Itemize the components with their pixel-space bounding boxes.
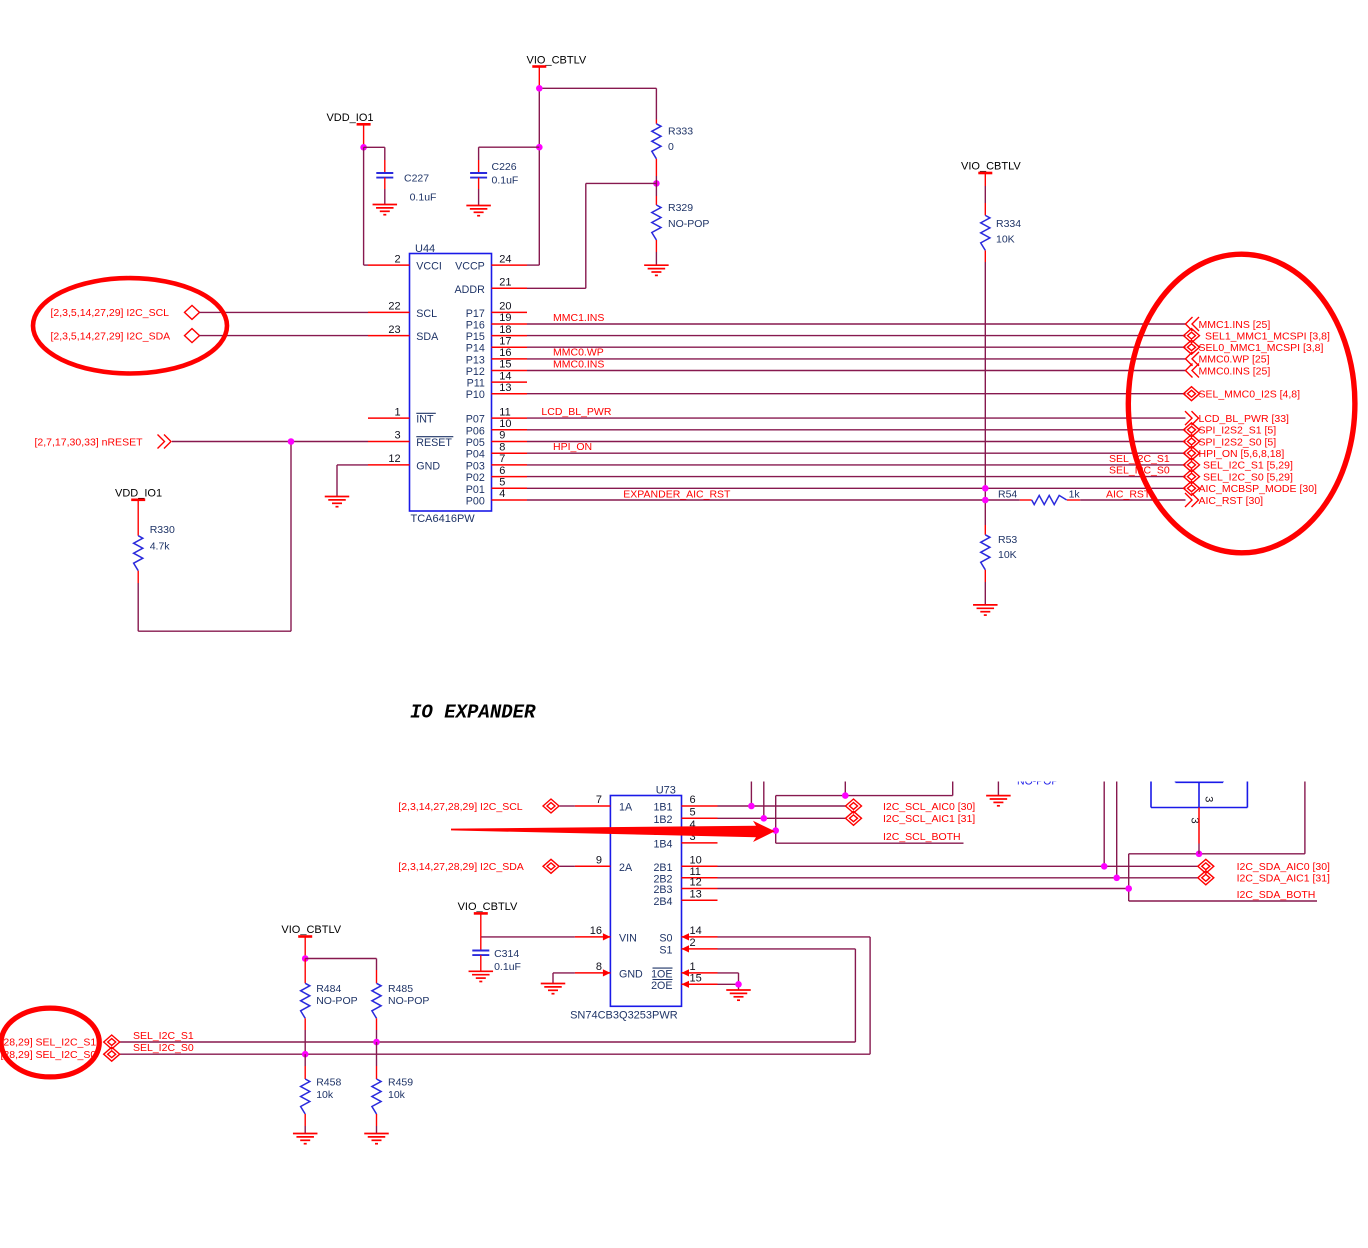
svg-text:13: 13 [690,889,702,901]
svg-text:IO EXPANDER: IO EXPANDER [410,702,536,724]
net label SEL_I2C_S0 (bottom) [133,1042,194,1054]
svg-text:NO-POP: NO-POP [668,218,709,230]
net label SEL_I2C_S0 (right) [1109,465,1170,477]
IC U73 SN74CB3Q3253PWR body [570,785,681,1022]
svg-text:P04: P04 [466,449,485,461]
svg-text:I2C_SDA_AIC1 [31]: I2C_SDA_AIC1 [31] [1237,873,1330,885]
port SEL_I2C_S1 [28,29] [1,1035,120,1049]
svg-text:0.1uF: 0.1uF [492,175,519,187]
svg-text:14: 14 [499,370,511,382]
wire net MMC1.INS (P16 row) [527,323,1186,325]
svg-text:INT: INT [416,414,434,426]
U44 pin 8 P04 [466,441,527,460]
U44 pin 18 P15 [466,324,527,343]
U73 pin 5 1B2 [653,807,717,826]
svg-text:P16: P16 [466,320,485,332]
U44 pin 13 P10 [466,382,527,401]
svg-text:P15: P15 [466,331,485,343]
svg-text:MMC0.WP [25]: MMC0.WP [25] [1199,354,1270,366]
junction 1B2 row / cut vertical [761,815,768,822]
svg-text:SEL_I2C_S1 [5,29]: SEL_I2C_S1 [5,29] [1203,460,1293,472]
svg-text:1B1: 1B1 [653,802,672,814]
wire net I2C_SDA_AIC0 (2B1 row) [718,782,1198,867]
net label SEL_I2C_S1 (right) [1109,453,1170,465]
svg-text:5: 5 [690,807,696,819]
svg-text:8: 8 [596,961,602,973]
resistor R484 NO-POP [301,959,358,1055]
svg-text:8: 8 [499,441,505,453]
U73 pin 6 1B1 [653,794,717,813]
svg-text:9: 9 [499,430,505,442]
svg-text:P01: P01 [466,484,485,496]
junction VIO / R485 branch [302,955,309,962]
svg-text:P14: P14 [466,343,485,355]
wire net SPI_I2S2_S1 (P06 row) [527,429,1186,431]
U73 pin 12 2B3 [653,877,717,896]
U44 pin 6 P02 [466,465,527,484]
svg-text:15: 15 [499,359,511,371]
wire I2C_SCL to 1A pin [560,805,575,807]
wire I2C_SCL to SCL pin [200,311,369,313]
U73 pin 7 1A [575,794,633,813]
svg-text:0: 0 [668,141,674,153]
annotation NO-POP (clipped) [1017,776,1058,788]
svg-text:3: 3 [1203,796,1215,802]
net label MMC1.INS [553,312,604,324]
svg-text:VIO_CBTLV: VIO_CBTLV [961,161,1021,173]
wire 1OE/2OE to ground [718,973,739,990]
svg-text:18: 18 [499,324,511,336]
svg-text:7: 7 [499,453,505,465]
red highlight ellipse around I2C_SCL/I2C_SDA ports [33,278,227,373]
resistor R329 NO-POP [652,196,710,265]
svg-text:2: 2 [394,253,400,265]
svg-text:R329: R329 [668,202,693,214]
svg-text:SCL: SCL [416,308,437,320]
svg-text:16: 16 [590,925,602,937]
svg-text:R485: R485 [388,983,413,995]
ground below C314 [469,971,494,981]
svg-text:10: 10 [499,418,511,430]
IC U44 TCA6416PW body [410,243,492,525]
svg-text:SEL0_MMC1_MCSPI [3,8]: SEL0_MMC1_MCSPI [3,8] [1199,342,1324,354]
port I2C_SCL_AIC1 [31] [846,811,976,825]
svg-text:4.7k: 4.7k [150,541,171,553]
svg-text:SEL_I2C_S0 [5,29]: SEL_I2C_S0 [5,29] [1203,471,1293,483]
svg-text:13: 13 [499,382,511,394]
svg-text:1A: 1A [619,802,633,814]
junction R484 column / SEL_I2C_S0 row [302,1051,309,1058]
port I2C_SCL [2,3,5,14,27,29] [51,305,200,319]
port nRESET [2,7,17,30,33] [35,435,172,449]
svg-text:2: 2 [690,937,696,949]
junction VDD_IO1 / C227 branch [360,144,367,151]
port SEL_I2C_S1 [5,29] [1184,458,1293,472]
svg-text:R54: R54 [998,489,1017,501]
svg-text:1: 1 [690,961,696,973]
svg-text:AIC_RST [30]: AIC_RST [30] [1199,495,1264,507]
svg-text:[28,29] SEL_I2C_S0: [28,29] SEL_I2C_S0 [1,1049,97,1061]
svg-text:P03: P03 [466,460,485,472]
svg-text:VIO_CBTLV: VIO_CBTLV [458,901,518,913]
svg-text:U44: U44 [415,243,435,255]
svg-text:[2,3,5,14,27,29] I2C_SCL: [2,3,5,14,27,29] I2C_SCL [51,307,170,319]
svg-text:VCCP: VCCP [455,261,485,273]
svg-text:2B3: 2B3 [653,884,672,896]
svg-text:P10: P10 [466,389,485,401]
junction 2B3 row / SDA_BOTH vertical [1125,885,1132,892]
svg-text:SPI_I2S2_S0 [5]: SPI_I2S2_S0 [5] [1199,436,1277,448]
power VDD_IO1 (mid left) [115,487,162,535]
power VDD_IO1 (top left) [326,112,373,148]
wire U-pin 3 lead to SDA_BOTH rail [1198,808,1200,854]
net label HPI_ON [553,441,592,453]
svg-text:1OE: 1OE [651,968,672,980]
wire net LCD_BL_PWR (P07 row) [527,417,1186,419]
svg-text:VCCI: VCCI [416,261,442,273]
junction VIO_CBTLV vertical / C226 branch [536,144,543,151]
svg-text:C314: C314 [494,948,519,960]
port I2C_SDA [2,3,5,14,27,29] [51,329,200,343]
svg-text:2OE: 2OE [651,980,672,992]
U73 pin 11 2B2 [653,866,717,885]
junction R485 column / SEL_I2C_S1 row [373,1039,380,1046]
wire net SEL_I2C_S0 (S0 pin loop to left port) [120,937,870,1054]
U44 pin 11 P07 [466,406,527,425]
svg-text:MMC1.INS [25]: MMC1.INS [25] [1199,319,1271,331]
svg-text:9: 9 [596,855,602,867]
svg-text:I2C_SDA_BOTH: I2C_SDA_BOTH [1237,889,1316,901]
resistor R330 4.7k [134,524,175,631]
wire net I2C_SCL_AIC1 (1B2 row) [718,782,846,819]
svg-text:MMC0.WP: MMC0.WP [553,347,604,359]
port I2C_SCL [2,3,14,27,28,29] [398,799,559,813]
svg-text:LCD_BL_PWR: LCD_BL_PWR [541,406,611,418]
U73 pin 2 S1 [659,937,717,956]
junction 1B3 row / SCL_BOTH vertical [772,827,779,834]
svg-text:24: 24 [499,253,511,265]
svg-text:21: 21 [499,277,511,289]
resistor R54 1k series [998,489,1080,505]
svg-text:SDA: SDA [416,331,439,343]
svg-text:NO-POP: NO-POP [388,995,429,1007]
port MMC0.INS [25] [1186,364,1271,378]
port I2C_SDA_AIC0 [30] [1198,859,1330,873]
svg-text:HPI_ON: HPI_ON [553,441,592,453]
resistor R334 10K [981,186,1022,250]
svg-text:P05: P05 [466,437,485,449]
junction 2OE row / OE ground stem [735,981,742,988]
power VIO_CBTLV (top) [527,55,587,89]
svg-text:ADDR: ADDR [455,284,486,296]
capacitor C314 0.1uF [472,937,521,973]
U73 pin 13 2B4 unconnected stub [653,889,717,908]
svg-text:P11: P11 [467,378,485,390]
svg-text:MMC0.INS [25]: MMC0.INS [25] [1199,365,1271,377]
port SEL_MMC0_I2S [4,8] [1184,387,1301,401]
svg-text:[2,3,5,14,27,29] I2C_SDA: [2,3,5,14,27,29] I2C_SDA [51,330,171,342]
svg-text:2B1: 2B1 [653,862,672,874]
junction nRESET / R330 branch [288,438,295,445]
svg-text:LCD_BL_PWR [33]: LCD_BL_PWR [33] [1199,413,1290,425]
svg-text:HPI_ON [5,6,8,18]: HPI_ON [5,6,8,18] [1199,448,1285,460]
svg-text:C226: C226 [492,161,517,173]
svg-text:I2C_SDA_AIC0 [30]: I2C_SDA_AIC0 [30] [1237,861,1330,873]
wire net SEL_MMC0_I2S (P10 row) [527,393,1186,395]
svg-text:SEL_MMC0_I2S [4,8]: SEL_MMC0_I2S [4,8] [1199,389,1301,401]
svg-text:S1: S1 [659,944,672,956]
svg-text:AIC_RST: AIC_RST [1106,488,1151,500]
svg-text:TCA6416PW: TCA6416PW [411,513,476,525]
junction 2B2 row / cut vertical [1113,875,1120,882]
svg-text:GND: GND [619,968,643,980]
svg-text:MMC0.INS: MMC0.INS [553,358,604,370]
U73 pin 15 2OE [651,973,717,992]
svg-text:P17: P17 [466,308,485,320]
resistor R458 10k [301,1054,342,1133]
red annotation arrow [451,821,775,842]
port HPI_ON [5,6,8,18] [1184,446,1285,460]
svg-text:NO-POP: NO-POP [316,995,357,1007]
U73 pin 3 1B4 unconnected stub [653,831,717,850]
svg-text:10: 10 [690,855,702,867]
svg-text:1B4: 1B4 [653,838,672,850]
wire VIN net [481,936,575,938]
port LCD_BL_PWR [33] [1185,411,1289,425]
junction SCL_BOTH top rail / cut vertical [842,792,849,799]
svg-text:[2,3,14,27,28,29] I2C_SDA: [2,3,14,27,28,29] I2C_SDA [398,861,524,873]
junction pull column / P01 row [982,485,989,492]
port SEL_I2C_S0 [5,29] [1184,470,1293,484]
svg-text:AIC_MCBSP_MODE [30]: AIC_MCBSP_MODE [30] [1199,483,1318,495]
ground below C226 [466,206,491,216]
wire I2C_SDA to SDA pin [200,335,369,337]
svg-text:2B4: 2B4 [653,896,672,908]
svg-text:P07: P07 [466,414,485,426]
wire VDD_IO1 net to VCCI pin 2 [364,147,368,265]
U44 pin 7 P03 [466,453,527,472]
U44 pin 15 P12 [466,359,527,378]
capacitor C227 0.1uF [364,147,437,204]
ground (cut) near NO-POP annotation [986,782,1011,806]
port SPI_I2S2_S0 [5] [1184,435,1277,449]
ground at OE pins [726,990,751,1000]
U44 pin 19 P16 [466,312,527,331]
port AIC_RST [30] [1185,493,1263,507]
svg-text:12: 12 [690,877,702,889]
junction node ADDR divider [653,180,660,187]
ground at U44 GND pin [325,497,350,507]
svg-text:SEL1_MMC1_MCSPI [3,8]: SEL1_MMC1_MCSPI [3,8] [1205,330,1330,342]
wire net AIC_MCBSP_MODE (P01 row) [527,487,1186,489]
wire ADDR net (R333/R329 midpoint to ADDR pin 21) [527,159,656,288]
U44 pin 4 P00 [466,488,527,507]
red highlight ellipse around SEL_I2C ports [1,1008,99,1077]
svg-text:0.1uF: 0.1uF [410,192,437,204]
U44 pin 3 RESET [368,430,453,449]
svg-text:SN74CB3Q3253PWR: SN74CB3Q3253PWR [570,1009,678,1021]
svg-text:5: 5 [499,477,505,489]
red highlight ellipse around right-edge ports [1128,254,1355,553]
wire net SPI_I2S2_S0 (P05 row) [527,441,1186,443]
junction 1B1 row / cut vertical [748,803,755,810]
title IO EXPANDER [410,702,536,724]
svg-text:20: 20 [499,301,511,313]
svg-text:7: 7 [596,794,602,806]
svg-text:R333: R333 [668,126,693,138]
U73 pin 1 1OE [651,961,717,980]
U44 pin 2 VCCI [368,253,442,272]
U44 pin 20 P17 unconnected stub [466,301,527,320]
svg-text:17: 17 [499,335,511,347]
resistor R333 0 [652,124,693,159]
wire VIO_CBTLV net to R333 and VCCP pin 24 [527,88,656,265]
wire net HPI_ON (P04 row) [527,452,1186,454]
svg-text:10K: 10K [998,549,1017,561]
svg-text:SEL_I2C_S1: SEL_I2C_S1 [133,1030,194,1042]
svg-text:12: 12 [388,453,400,465]
junction SDA_BOTH rail / U-pin lead [1196,851,1203,858]
svg-text:P12: P12 [466,366,485,378]
svg-text:P13: P13 [466,354,485,366]
U44 pin 10 P06 [466,418,527,437]
junction pull column / P00 row [982,497,989,504]
svg-text:19: 19 [499,312,511,324]
svg-text:P00: P00 [466,496,485,508]
svg-text:RESET: RESET [416,437,452,449]
wire net SEL0_MMC1_MCSPI (P14 row) [527,346,1186,348]
U73 pin 16 VIN [575,925,637,944]
svg-text:R330: R330 [150,524,175,536]
ground below R459 [364,1134,389,1144]
svg-text:R334: R334 [996,218,1021,230]
port I2C_SDA [2,3,14,27,28,29] [398,859,559,873]
wire U44 GND pin to ground [337,465,368,497]
wire pull-up column R334 to R53 [984,250,986,525]
svg-text:22: 22 [388,301,400,313]
U44 pin 23 SDA [368,324,439,343]
ground below R329 [644,265,669,275]
U44 pin 5 P01 [466,477,527,496]
svg-text:14: 14 [690,925,702,937]
port MMC1.INS [25] [1186,317,1271,331]
wire net MMC0.WP (P13 row) [527,358,1186,360]
net label MMC0.WP [553,347,604,359]
net label MMC0.INS [553,358,604,370]
svg-text:C227: C227 [404,173,429,185]
wire net I2C_SDA_AIC1 (2B2 row) [718,782,1198,878]
resistor R459 10k [372,1042,413,1134]
svg-text:[2,7,17,30,33] nRESET: [2,7,17,30,33] nRESET [35,436,144,448]
wire net I2C_SDA_BOTH (2B3 row and loop) [718,782,1318,902]
U44 pin 9 P05 [466,430,527,449]
U44 pin 17 P14 [466,335,527,354]
port SEL0_MMC1_MCSPI [3,8] [1184,340,1324,354]
port MMC0.WP [25] [1186,352,1270,366]
U73 pin 8 GND [575,961,643,980]
capacitor C226 0.1uF [470,147,539,205]
svg-text:MMC1.INS: MMC1.INS [553,312,604,324]
power VIO_CBTLV (bottom left) [281,924,341,959]
ground at U73 GND pin [541,984,566,994]
svg-text:6: 6 [499,465,505,477]
junction VIO_CBTLV vertical / R333 branch [536,85,543,92]
power VIO_CBTLV (bottom mid) [458,901,518,937]
svg-text:10k: 10k [388,1089,406,1101]
ground below R458 [293,1134,318,1144]
partial device (cut) with pin 3 top right [1151,782,1247,824]
U73 pin 10 2B1 [653,855,717,874]
svg-text:VDD_IO1: VDD_IO1 [326,112,373,124]
port AIC_MCBSP_MODE [30] [1184,481,1318,495]
svg-text:R53: R53 [998,534,1017,546]
svg-text:I2C_SCL_AIC0 [30]: I2C_SCL_AIC0 [30] [883,801,975,813]
U44 pin 24 VCCP [455,253,527,272]
U44 pin 1 INT unconnected stub [368,406,436,425]
svg-text:3: 3 [394,430,400,442]
U44 pin 14 P11 unconnected stub [467,370,527,389]
svg-text:R458: R458 [316,1077,341,1089]
U44 pin 16 P13 [466,347,527,366]
svg-text:10k: 10k [316,1089,334,1101]
svg-text:[2,3,14,27,28,29] I2C_SCL: [2,3,14,27,28,29] I2C_SCL [398,801,522,813]
U73 pin 4 1B3 [653,819,717,838]
svg-text:P06: P06 [466,425,485,437]
svg-text:4: 4 [499,488,505,500]
ground below R53 [973,605,998,615]
svg-text:2A: 2A [619,862,633,874]
wire net I2C_SCL_BOTH (1B3 row and loop) [718,782,964,844]
wire net MMC0.INS (P12 row) [527,370,1186,372]
svg-text:1B2: 1B2 [653,814,672,826]
resistor R53 10K [981,525,1018,605]
wire net EXPANDER_AIC_RST (P00 to R54) [527,488,1020,500]
wire net SEL_I2C_S1 (S1 pin loop to left port) [120,949,856,1042]
net label LCD_BL_PWR [541,406,611,418]
svg-text:1: 1 [394,406,400,418]
wire net SEL_I2C_S1 (P03 row) [527,464,1186,466]
wire nRESET net [138,442,368,632]
wire net SEL_I2C_S0 (P02 row) [527,476,1186,478]
port I2C_SCL_AIC0 [30] [846,799,976,813]
svg-text:I2C_SCL_BOTH: I2C_SCL_BOTH [883,831,961,843]
svg-text:16: 16 [499,347,511,359]
U44 pin 22 SCL [368,301,437,320]
junction 2B1 row / cut vertical [1101,863,1108,870]
port I2C_SDA_AIC1 [31] [1198,871,1330,885]
svg-text:10K: 10K [996,234,1015,246]
svg-text:I2C_SCL_AIC1 [31]: I2C_SCL_AIC1 [31] [883,813,975,825]
svg-text:23: 23 [388,324,400,336]
U44 pin 21 ADDR [455,277,527,296]
wire I2C_SDA to 2A pin [560,865,575,867]
svg-text:1k: 1k [1069,489,1081,501]
svg-text:P02: P02 [466,472,485,484]
svg-text:11: 11 [499,406,510,418]
svg-text:SPI_I2S2_S1 [5]: SPI_I2S2_S1 [5] [1199,425,1277,437]
svg-text:R459: R459 [388,1077,413,1089]
svg-text:VIN: VIN [619,932,637,944]
svg-text:GND: GND [416,460,440,472]
resistor R485 NO-POP [305,959,429,1043]
svg-text:U73: U73 [656,785,676,797]
svg-text:6: 6 [690,794,696,806]
svg-text:0.1uF: 0.1uF [494,961,521,973]
svg-text:VIO_CBTLV: VIO_CBTLV [281,924,341,936]
svg-text:S0: S0 [659,932,672,944]
wire net SEL1_MMC1_MCSPI (P15 row) [527,335,1186,337]
svg-text:15: 15 [690,973,702,985]
